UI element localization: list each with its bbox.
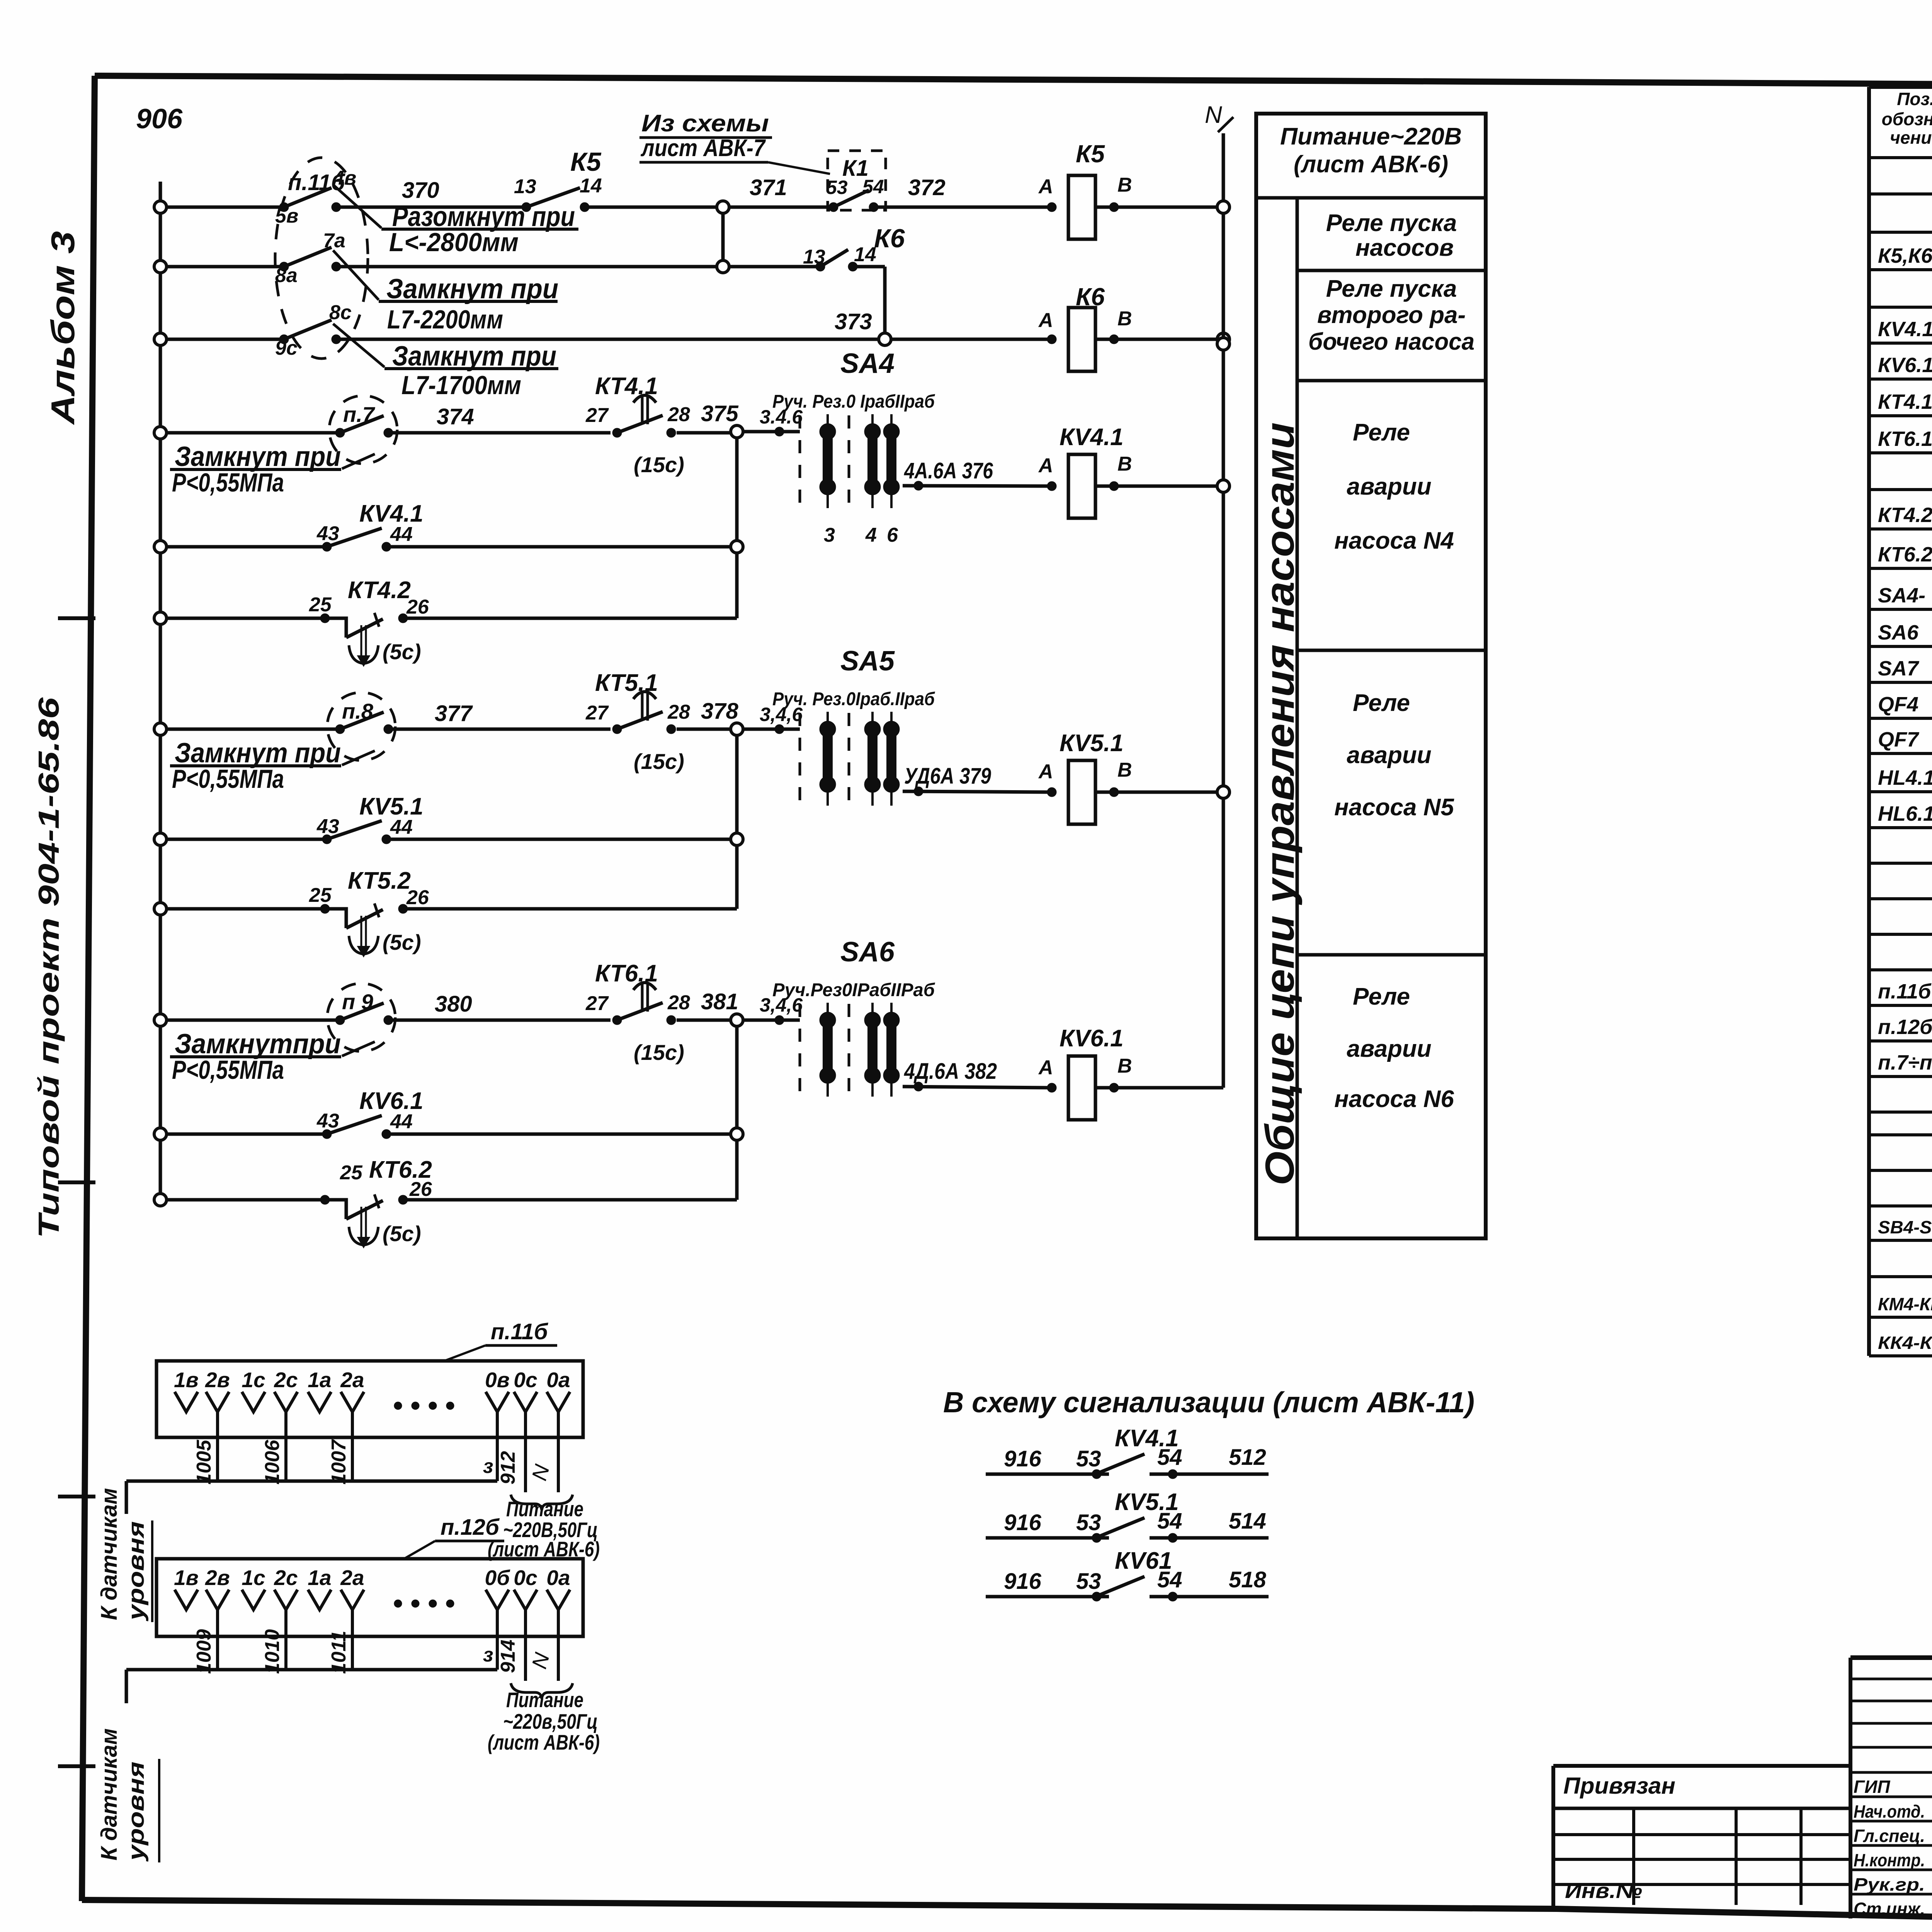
svg-text:К5: К5 <box>1076 140 1105 168</box>
svg-text:К5,К6: К5,К6 <box>1878 244 1932 267</box>
svg-text:В: В <box>1117 759 1132 781</box>
svg-text:КТ6.1: КТ6.1 <box>1878 427 1932 451</box>
svg-text:27: 27 <box>585 404 609 427</box>
svg-text:Питание: Питание <box>506 1688 583 1712</box>
svg-text:27: 27 <box>585 702 609 724</box>
svg-text:лист АВК-7: лист АВК-7 <box>640 135 766 162</box>
svg-text:НL4.1-: НL4.1- <box>1878 766 1932 789</box>
svg-text:0с: 0с <box>514 1566 537 1590</box>
svg-text:Инв.№: Инв.№ <box>1565 1879 1642 1903</box>
svg-text:В: В <box>1117 1055 1132 1077</box>
svg-text:44: 44 <box>390 816 413 838</box>
svg-text:п.12б: п.12б <box>1878 1015 1932 1039</box>
svg-text:Р<0,55МПа: Р<0,55МПа <box>172 1055 284 1085</box>
svg-text:Руч.Рез0IРабIIРаб: Руч.Рез0IРабIIРаб <box>772 980 935 1000</box>
svg-text:Р<0,55МПа: Р<0,55МПа <box>172 468 284 497</box>
svg-text:1с: 1с <box>241 1368 265 1392</box>
svg-text:Реле: Реле <box>1353 419 1410 446</box>
svg-text:1с: 1с <box>241 1566 265 1590</box>
svg-text:13: 13 <box>514 175 536 198</box>
svg-text:(5с): (5с) <box>383 639 421 664</box>
svg-text:Руч. Рез.0 IрабIIраб: Руч. Рез.0 IрабIIраб <box>772 391 935 412</box>
svg-text:28: 28 <box>667 992 690 1014</box>
svg-text:КТ6.1: КТ6.1 <box>595 960 658 987</box>
svg-text:377: 377 <box>435 701 473 726</box>
svg-text:Реле пуска: Реле пуска <box>1326 276 1457 302</box>
svg-text:27: 27 <box>585 992 609 1015</box>
svg-text:К6: К6 <box>874 224 905 253</box>
svg-text:КV4.1: КV4.1 <box>1060 424 1124 451</box>
svg-text:Рук.гр.: Рук.гр. <box>1854 1874 1925 1895</box>
svg-text:КТ4.1: КТ4.1 <box>595 373 658 400</box>
svg-text:насосов: насосов <box>1355 235 1454 261</box>
svg-text:380: 380 <box>435 992 472 1017</box>
svg-text:(лист АВК-6): (лист АВК-6) <box>1294 151 1448 178</box>
svg-text:44: 44 <box>390 1111 413 1133</box>
svg-text:Реле: Реле <box>1353 690 1410 716</box>
svg-text:0б: 0б <box>485 1566 511 1590</box>
svg-text:К датчикам: К датчикам <box>97 1728 122 1861</box>
svg-text:44: 44 <box>390 523 413 546</box>
svg-text:1005: 1005 <box>193 1439 215 1485</box>
svg-text:В: В <box>1117 174 1132 196</box>
svg-text:1а: 1а <box>308 1368 331 1392</box>
svg-text:L<-2800мм: L<-2800мм <box>389 228 519 257</box>
svg-text:1009: 1009 <box>193 1629 215 1674</box>
svg-text:К6: К6 <box>1076 283 1105 311</box>
svg-text:371: 371 <box>750 175 787 200</box>
svg-text:2с: 2с <box>274 1566 298 1590</box>
svg-text:второго ра-: второго ра- <box>1317 302 1466 328</box>
svg-text:А: А <box>1038 760 1053 783</box>
svg-text:372: 372 <box>908 175 946 200</box>
svg-text:А: А <box>1038 454 1053 477</box>
svg-text:0в: 0в <box>485 1368 510 1392</box>
svg-text:1010: 1010 <box>261 1629 284 1674</box>
svg-text:906: 906 <box>136 104 183 134</box>
svg-text:Из схемы: Из схемы <box>641 110 769 137</box>
svg-text:В: В <box>1117 453 1132 475</box>
svg-text:43: 43 <box>316 1110 339 1132</box>
svg-text:5в: 5в <box>275 205 298 227</box>
svg-text:1007: 1007 <box>328 1439 350 1485</box>
svg-text:28: 28 <box>667 701 690 723</box>
svg-text:(15с): (15с) <box>634 1040 684 1065</box>
svg-text:К5: К5 <box>570 147 602 177</box>
svg-text:Реле: Реле <box>1353 983 1410 1010</box>
svg-text:25: 25 <box>309 594 332 616</box>
svg-text:8а: 8а <box>275 264 298 287</box>
svg-text:(5с): (5с) <box>383 930 421 954</box>
svg-text:L7-2200мм: L7-2200мм <box>387 305 503 334</box>
svg-text:914: 914 <box>497 1639 519 1673</box>
svg-text:SА7: SА7 <box>1878 657 1920 680</box>
svg-text:КV6.1: КV6.1 <box>1878 354 1932 377</box>
svg-text:А: А <box>1038 1056 1053 1079</box>
svg-text:0а: 0а <box>546 1566 570 1590</box>
svg-text:п.8: п.8 <box>342 699 374 723</box>
svg-text:0а: 0а <box>546 1368 570 1392</box>
svg-text:1011: 1011 <box>328 1631 350 1674</box>
svg-text:QF7: QF7 <box>1878 728 1920 751</box>
svg-text:1в: 1в <box>174 1566 199 1590</box>
svg-text:В: В <box>1117 308 1132 330</box>
svg-text:3: 3 <box>824 524 835 546</box>
svg-text:518: 518 <box>1229 1567 1267 1592</box>
svg-text:SА6: SА6 <box>840 937 895 968</box>
svg-text:А: А <box>1038 175 1053 198</box>
svg-text:В схему сигнализации (лист АВ: В схему сигнализации (лист АВК-11) <box>943 1386 1475 1418</box>
svg-text:з: з <box>483 1644 493 1666</box>
svg-text:SА4: SА4 <box>840 348 895 379</box>
svg-text:514: 514 <box>1229 1509 1266 1534</box>
svg-text:9с: 9с <box>275 337 298 359</box>
svg-text:2в: 2в <box>205 1368 230 1392</box>
svg-text:аварии: аварии <box>1347 742 1431 769</box>
svg-text:НL6.1: НL6.1 <box>1878 802 1932 825</box>
svg-text:370: 370 <box>402 178 439 203</box>
svg-text:25: 25 <box>309 884 332 906</box>
svg-text:SВ4-SВ7: SВ4-SВ7 <box>1878 1217 1932 1237</box>
svg-text:N: N <box>1205 102 1222 128</box>
svg-text:381: 381 <box>701 989 738 1014</box>
svg-text:374: 374 <box>437 404 474 429</box>
svg-text:53: 53 <box>1076 1510 1101 1535</box>
svg-text:6: 6 <box>887 524 898 546</box>
svg-text:з: з <box>483 1455 493 1478</box>
svg-text:Замкнутпри: Замкнутпри <box>175 1029 341 1060</box>
svg-text:(5с): (5с) <box>383 1221 421 1246</box>
svg-text:УД6А 379: УД6А 379 <box>904 764 991 789</box>
svg-text:обозна-: обозна- <box>1882 109 1932 129</box>
svg-text:Замкнут при: Замкнут при <box>175 738 341 769</box>
svg-text:п 9: п 9 <box>342 990 373 1014</box>
svg-text:2а: 2а <box>340 1368 364 1392</box>
svg-text:14: 14 <box>854 243 876 266</box>
svg-text:ГИП: ГИП <box>1854 1777 1890 1797</box>
svg-text:4Д.6А 382: 4Д.6А 382 <box>904 1059 997 1084</box>
svg-text:Типовой проект 904-1-65.86: Типовой проект 904-1-65.86 <box>32 697 65 1238</box>
svg-text:53: 53 <box>826 177 848 198</box>
svg-text:КК4-КК7: КК4-КК7 <box>1878 1333 1932 1353</box>
svg-text:п.11б: п.11б <box>491 1319 549 1344</box>
svg-text:54: 54 <box>862 176 884 197</box>
svg-text:насоса N6: насоса N6 <box>1334 1086 1454 1112</box>
svg-text:8с: 8с <box>329 301 352 324</box>
svg-text:Ст.инж.: Ст.инж. <box>1854 1899 1925 1919</box>
svg-text:КТ4.2: КТ4.2 <box>348 577 411 604</box>
svg-text:Поз.: Поз. <box>1897 89 1932 109</box>
svg-text:43: 43 <box>316 522 339 545</box>
svg-text:26: 26 <box>406 886 429 909</box>
svg-text:КТ4.1-: КТ4.1- <box>1878 390 1932 413</box>
svg-text:SА6: SА6 <box>1878 621 1919 644</box>
svg-text:(15с): (15с) <box>634 749 684 774</box>
svg-text:SА5: SА5 <box>840 646 895 677</box>
svg-text:насоса N5: насоса N5 <box>1334 794 1454 821</box>
svg-text:373: 373 <box>835 309 872 334</box>
svg-text:1006: 1006 <box>261 1439 284 1485</box>
svg-text:Р<0,55МПа: Р<0,55МПа <box>172 764 284 794</box>
svg-text:(лист АВК-6): (лист АВК-6) <box>488 1730 600 1754</box>
svg-text:Н.контр.: Н.контр. <box>1854 1850 1925 1870</box>
svg-text:Замкнут при: Замкнут при <box>175 441 341 472</box>
svg-text:L7-1700мм: L7-1700мм <box>401 371 521 400</box>
svg-text:1в: 1в <box>174 1368 199 1392</box>
svg-text:Нач.отд.: Нач.отд. <box>1854 1801 1925 1821</box>
svg-text:уровня: уровня <box>124 1521 149 1622</box>
svg-text:Общие цепи управления насос: Общие цепи управления насосами <box>1257 422 1303 1185</box>
svg-text:~220в,50Гц: ~220в,50Гц <box>503 1709 598 1733</box>
svg-text:SА4-: SА4- <box>1878 584 1925 607</box>
svg-text:1а: 1а <box>308 1566 331 1590</box>
svg-text:п.11б: п.11б <box>1878 980 1932 1003</box>
svg-text:Реле пуска: Реле пуска <box>1326 210 1457 236</box>
svg-text:п.12б: п.12б <box>440 1515 500 1540</box>
svg-text:7а: 7а <box>323 230 345 252</box>
svg-text:916: 916 <box>1004 1510 1042 1535</box>
svg-text:Руч. Рез.0Iраб.IIраб: Руч. Рез.0Iраб.IIраб <box>772 689 935 709</box>
svg-text:п.7: п.7 <box>343 402 376 427</box>
svg-text:чение: чение <box>1890 128 1932 148</box>
svg-text:КТ5.2: КТ5.2 <box>348 867 411 894</box>
svg-text:КТ5.1: КТ5.1 <box>595 670 658 696</box>
svg-text:КV6.1: КV6.1 <box>1060 1025 1124 1052</box>
svg-text:54: 54 <box>1157 1445 1182 1470</box>
svg-text:916: 916 <box>1004 1569 1042 1594</box>
svg-text:бочего насоса: бочего насоса <box>1308 328 1475 355</box>
svg-text:QF4: QF4 <box>1878 693 1918 716</box>
svg-text:2с: 2с <box>274 1368 298 1392</box>
svg-text:54: 54 <box>1157 1509 1182 1534</box>
svg-text:аварии: аварии <box>1347 473 1431 500</box>
svg-text:4А.6А 376: 4А.6А 376 <box>904 458 993 483</box>
svg-text:4: 4 <box>865 524 877 546</box>
svg-text:КТ4.2-: КТ4.2- <box>1878 503 1932 527</box>
svg-text:375: 375 <box>701 401 739 426</box>
svg-text:Питание~220В: Питание~220В <box>1280 123 1462 150</box>
svg-text:28: 28 <box>667 403 690 426</box>
svg-text:512: 512 <box>1229 1445 1266 1470</box>
svg-text:916: 916 <box>1004 1446 1042 1471</box>
svg-text:26: 26 <box>406 596 429 618</box>
svg-text:0с: 0с <box>514 1368 537 1392</box>
svg-text:2в: 2в <box>205 1566 230 1590</box>
svg-text:КV4.1-: КV4.1- <box>1878 318 1932 341</box>
svg-text:14: 14 <box>580 175 602 197</box>
svg-text:Альбом 3: Альбом 3 <box>45 231 82 425</box>
svg-text:К датчикам: К датчикам <box>97 1488 122 1620</box>
svg-text:(15с): (15с) <box>634 452 684 477</box>
svg-text:N: N <box>527 1650 554 1671</box>
svg-text:43: 43 <box>316 815 339 838</box>
svg-text:912: 912 <box>497 1451 519 1485</box>
svg-text:уровня: уровня <box>124 1762 149 1862</box>
svg-text:N: N <box>527 1462 554 1483</box>
svg-text:13: 13 <box>803 246 825 268</box>
svg-text:53: 53 <box>1076 1569 1101 1594</box>
svg-text:25: 25 <box>340 1162 363 1184</box>
svg-text:КМ4-КМ7: КМ4-КМ7 <box>1878 1294 1932 1314</box>
svg-text:53: 53 <box>1076 1446 1101 1471</box>
svg-text:А: А <box>1038 309 1053 332</box>
svg-text:Гл.спец.: Гл.спец. <box>1854 1826 1925 1846</box>
svg-text:378: 378 <box>701 699 739 724</box>
svg-text:КV5.1: КV5.1 <box>1060 730 1124 757</box>
svg-text:2а: 2а <box>340 1566 364 1590</box>
svg-text:аварии: аварии <box>1347 1036 1431 1062</box>
svg-text:КТ6.2: КТ6.2 <box>1878 543 1932 566</box>
svg-text:Питание: Питание <box>506 1497 583 1521</box>
svg-text:Привязан: Привязан <box>1563 1773 1675 1799</box>
svg-text:54: 54 <box>1157 1567 1182 1592</box>
svg-text:26: 26 <box>409 1178 432 1201</box>
svg-text:п.7÷п9: п.7÷п9 <box>1878 1051 1932 1074</box>
svg-text:насоса N4: насоса N4 <box>1334 527 1454 554</box>
